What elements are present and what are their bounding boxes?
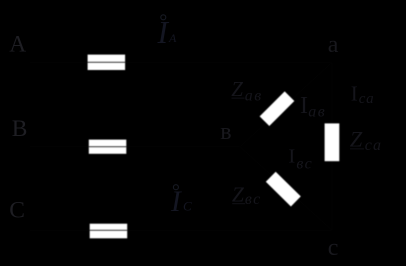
- svg-text:Z: Z: [232, 182, 245, 206]
- svg-text:с: с: [328, 235, 339, 261]
- svg-text:В: В: [12, 116, 28, 142]
- svg-text:са: са: [365, 137, 383, 154]
- svg-text:I: I: [300, 93, 308, 119]
- svg-text:I: I: [351, 82, 358, 106]
- svg-text:Z: Z: [231, 77, 243, 101]
- svg-text:С: С: [183, 199, 192, 214]
- svg-text:I: I: [288, 146, 295, 168]
- svg-text:А: А: [9, 31, 26, 57]
- svg-text:I: I: [170, 186, 182, 218]
- svg-text:А: А: [168, 31, 177, 45]
- svg-text:ав: ав: [308, 103, 326, 120]
- svg-text:Z: Z: [350, 127, 363, 152]
- svg-text:са: са: [359, 91, 375, 107]
- svg-text:С: С: [9, 198, 25, 224]
- svg-text:I: I: [157, 15, 170, 50]
- svg-text:вс: вс: [245, 191, 262, 208]
- svg-text:ав: ав: [245, 87, 263, 104]
- svg-text:в: в: [220, 119, 231, 145]
- svg-text:вс: вс: [296, 156, 313, 173]
- svg-text:а: а: [328, 32, 339, 58]
